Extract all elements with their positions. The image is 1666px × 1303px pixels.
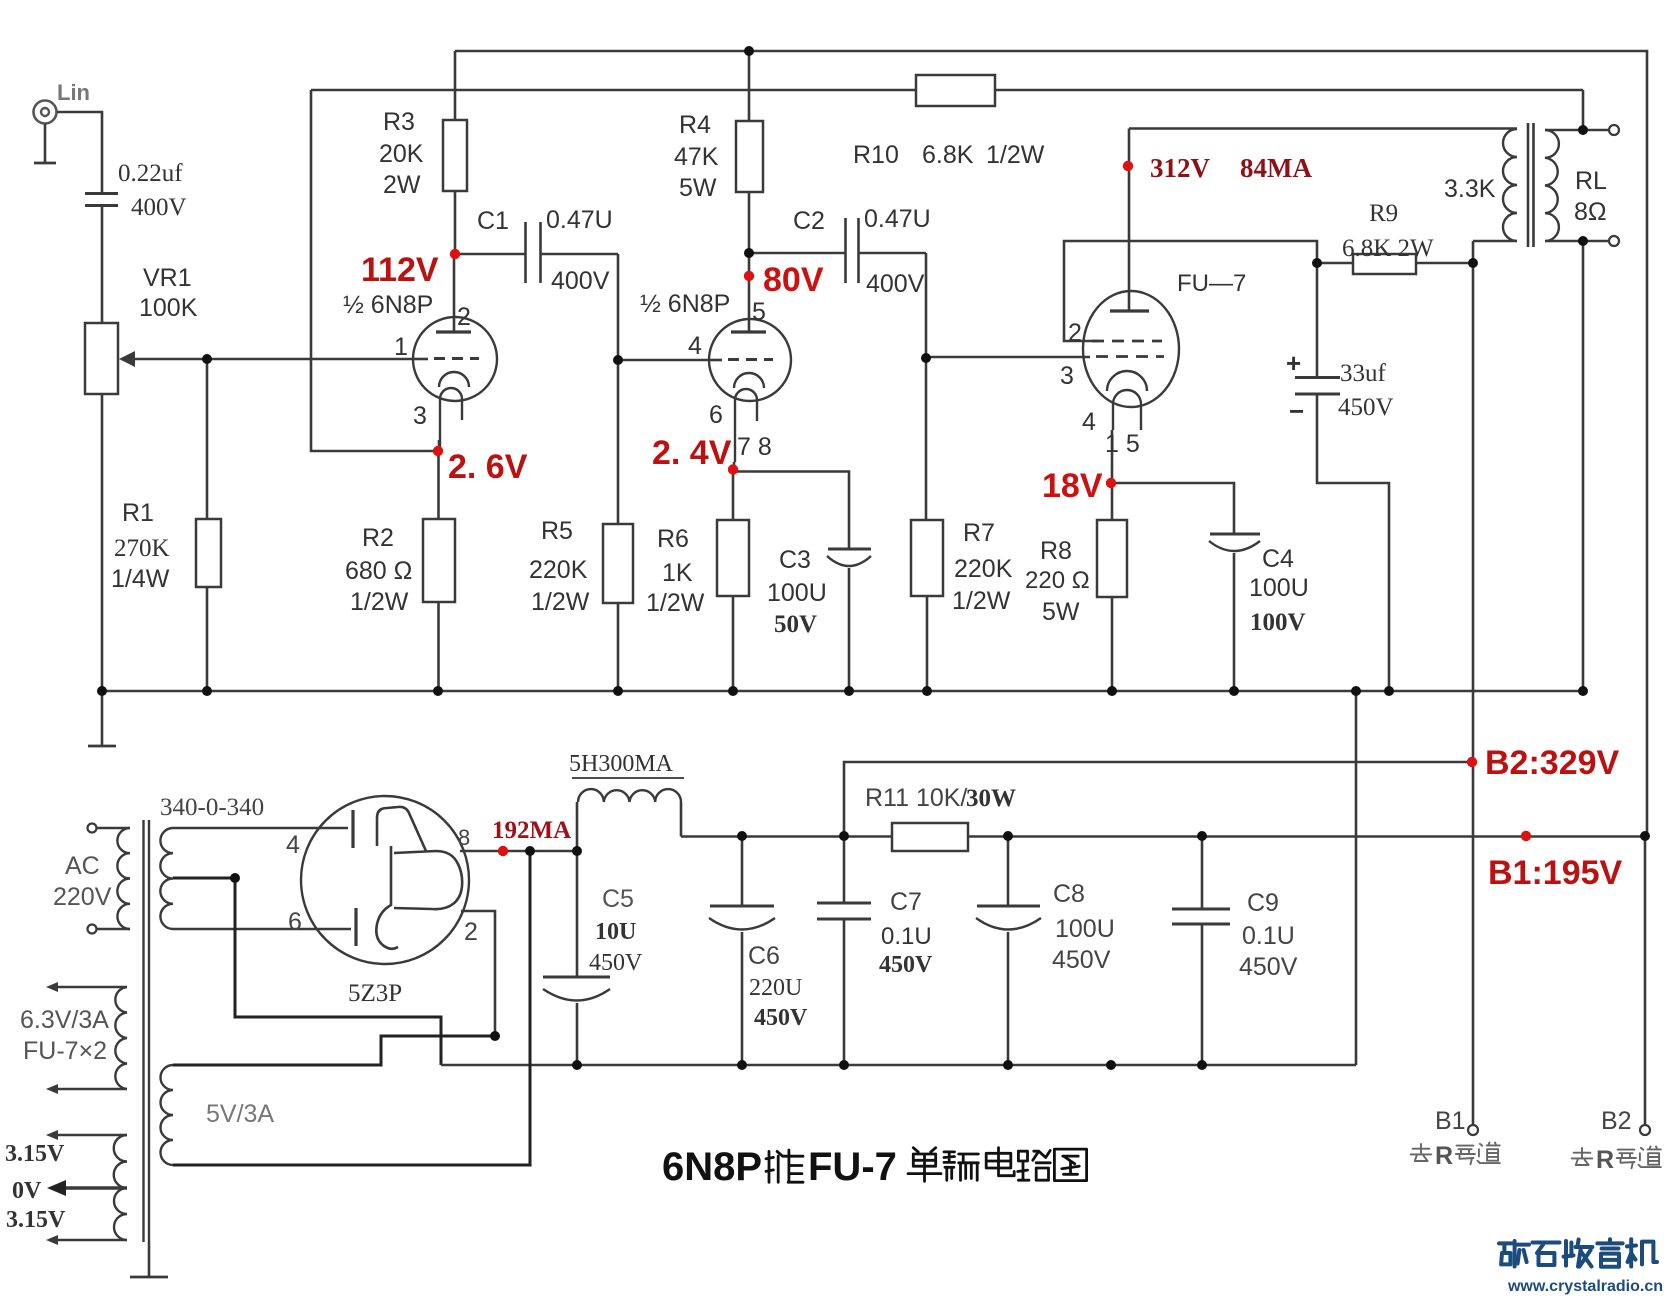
svg-text:5V/3A: 5V/3A xyxy=(206,1100,274,1128)
svg-text:6: 6 xyxy=(709,401,723,429)
wire HV top to 5Z3P pin4 xyxy=(173,827,348,830)
svg-text:R9: R9 xyxy=(1369,200,1398,227)
wire secondary ground drop xyxy=(1582,241,1585,691)
VR1 wiper arrow xyxy=(122,358,207,361)
wire cathode2 to C3 xyxy=(733,472,849,550)
svg-text:450V: 450V xyxy=(1338,394,1394,421)
resistor R11 xyxy=(892,823,968,851)
svg-text:30W: 30W xyxy=(966,785,1016,812)
svg-text:VR1: VR1 xyxy=(143,264,192,292)
svg-text:B1:195V: B1:195V xyxy=(1488,854,1623,892)
terminal B2 out xyxy=(1640,1125,1650,1135)
svg-text:3.15V: 3.15V xyxy=(5,1141,65,1167)
svg-text:220V: 220V xyxy=(53,883,112,911)
svg-text:100K: 100K xyxy=(139,294,198,322)
AC input terminals xyxy=(88,824,97,833)
svg-text:7 8: 7 8 xyxy=(737,433,772,461)
output transformer secondary RL xyxy=(1545,130,1559,241)
svg-text:R: R xyxy=(1435,1142,1453,1170)
ground rail lower xyxy=(441,1064,1356,1067)
arrow 3.15V top xyxy=(52,1134,127,1137)
svg-text:400V: 400V xyxy=(866,270,925,298)
svg-text:450V: 450V xyxy=(589,950,643,976)
svg-text:C4: C4 xyxy=(1262,545,1294,573)
ground at Lin xyxy=(44,124,47,162)
resistor R6 xyxy=(717,520,749,596)
svg-text:33uf: 33uf xyxy=(1340,360,1387,387)
svg-text:680 Ω: 680 Ω xyxy=(345,557,412,585)
capacitor C1 xyxy=(455,253,525,256)
svg-text:4: 4 xyxy=(1082,408,1096,436)
title glyph tui xyxy=(766,1150,803,1182)
svg-text:1/2W: 1/2W xyxy=(531,588,590,616)
svg-text:1/2W: 1/2W xyxy=(952,587,1011,615)
ground rail upper xyxy=(100,690,1583,693)
resistor R8 xyxy=(1111,483,1114,520)
svg-text:100V: 100V xyxy=(1250,609,1306,636)
triode U1 half 6N8P xyxy=(413,254,497,448)
svg-text:C6: C6 xyxy=(748,942,780,970)
label to R channel right xyxy=(1572,1148,1593,1165)
svg-text:RL: RL xyxy=(1575,167,1607,195)
svg-text:5Z3P: 5Z3P xyxy=(348,980,402,1007)
svg-text:R10: R10 xyxy=(853,141,899,169)
wire VR1 bottom xyxy=(101,394,104,691)
svg-text:B1: B1 xyxy=(1435,1107,1466,1135)
ground below rail left xyxy=(101,691,104,745)
wire top B1 rail xyxy=(455,51,1647,836)
terminal B1 out xyxy=(1468,1125,1478,1135)
resistor R3 xyxy=(454,51,457,120)
svg-text:½ 6N8P: ½ 6N8P xyxy=(640,290,730,318)
resistor R1 xyxy=(206,359,209,519)
svg-text:50V: 50V xyxy=(774,611,817,638)
wire secondary top to terminal xyxy=(1545,129,1609,132)
svg-text:5W: 5W xyxy=(1042,598,1080,626)
svg-text:6N8P: 6N8P xyxy=(662,1145,762,1189)
svg-text:R5: R5 xyxy=(541,517,573,545)
title glyph lu xyxy=(1018,1151,1050,1181)
wire cathode2 node xyxy=(733,462,736,469)
svg-text:450V: 450V xyxy=(754,1005,808,1031)
svg-text:450V: 450V xyxy=(879,952,933,978)
capacitor 33uf xyxy=(1316,263,1319,377)
wire Lin to C in xyxy=(57,112,102,193)
capacitor C5 xyxy=(576,851,579,977)
svg-text:18V: 18V xyxy=(1042,467,1103,505)
svg-text:C8: C8 xyxy=(1053,880,1085,908)
resistor R9 xyxy=(1317,262,1353,265)
rectifier winding 5V xyxy=(161,1065,174,1165)
svg-text:100U: 100U xyxy=(1055,915,1115,943)
heater winding 3.15V lower xyxy=(114,1188,127,1240)
svg-text:½ 6N8P: ½ 6N8P xyxy=(343,291,433,319)
wire HV bottom to 5Z3P pin6 xyxy=(173,928,351,931)
svg-text:3: 3 xyxy=(413,402,427,430)
svg-text:270K: 270K xyxy=(114,535,170,562)
pentode FU-7 xyxy=(1083,129,1179,431)
core ground lead xyxy=(148,1242,151,1276)
wire grid tube2 xyxy=(618,359,710,362)
potentiometer VR1 xyxy=(85,323,118,394)
svg-text:R4: R4 xyxy=(679,111,711,139)
svg-text:1/2W: 1/2W xyxy=(350,588,409,616)
svg-text:www.crystalradio.cn: www.crystalradio.cn xyxy=(1507,1278,1663,1295)
wire 5V bottom to B+ node xyxy=(173,851,530,1165)
terminal RL bottom xyxy=(1609,236,1619,246)
input connector Lin xyxy=(34,101,57,124)
wire B2 drop from R9 right xyxy=(1472,263,1475,1130)
rectifier tube 5Z3P xyxy=(301,796,469,964)
title glyph dian xyxy=(986,1148,1014,1176)
wire B1 output drop xyxy=(1644,836,1647,1130)
svg-text:R11 10K/: R11 10K/ xyxy=(865,784,967,812)
svg-text:1 5: 1 5 xyxy=(1105,430,1140,458)
svg-text:6.8K 2W: 6.8K 2W xyxy=(1342,235,1434,262)
svg-text:2: 2 xyxy=(457,303,471,331)
svg-text:R2: R2 xyxy=(362,524,394,552)
arrow 6.3V top xyxy=(52,986,127,989)
svg-text:2: 2 xyxy=(1068,319,1082,347)
svg-text:C5: C5 xyxy=(602,885,634,913)
svg-text:10U: 10U xyxy=(595,919,636,945)
svg-text:5H300MA: 5H300MA xyxy=(569,751,674,777)
transformer core xyxy=(1527,123,1530,247)
svg-text:5W: 5W xyxy=(679,174,717,202)
resistor R10 xyxy=(916,75,995,106)
wire HV center tap to ground rail xyxy=(173,878,441,1065)
svg-text:3: 3 xyxy=(1060,362,1074,390)
capacitor C6 xyxy=(741,836,744,906)
capacitor C3 xyxy=(828,548,871,551)
svg-text:B2:329V: B2:329V xyxy=(1485,744,1620,782)
svg-text:4: 4 xyxy=(286,831,300,859)
svg-text:1/2W: 1/2W xyxy=(646,589,705,617)
svg-text:6.3V/3A: 6.3V/3A xyxy=(20,1006,109,1034)
svg-text:400V: 400V xyxy=(551,267,610,295)
wire secondary bottom to terminal xyxy=(1545,240,1609,243)
resistor R4 xyxy=(748,51,751,121)
arrow 6.3V bottom xyxy=(52,1088,127,1091)
svg-text:80V: 80V xyxy=(763,261,824,299)
wire grid FU-7 xyxy=(926,356,1090,359)
svg-text:0V: 0V xyxy=(12,1178,42,1204)
resistor R5 xyxy=(603,524,633,603)
wire B2 branch xyxy=(844,762,1472,836)
svg-text:R: R xyxy=(1596,1146,1614,1174)
svg-text:0.22uf: 0.22uf xyxy=(118,160,183,187)
svg-text:8Ω: 8Ω xyxy=(1574,198,1607,226)
svg-text:4: 4 xyxy=(688,332,702,360)
svg-text:2: 2 xyxy=(464,918,478,946)
svg-text:220 Ω: 220 Ω xyxy=(1025,567,1090,594)
triode U2 half 6N8P xyxy=(709,253,791,462)
svg-text:R1: R1 xyxy=(122,499,154,527)
label to R channel left xyxy=(1411,1144,1432,1161)
svg-text:C7: C7 xyxy=(890,888,922,916)
svg-text:FU-7×2: FU-7×2 xyxy=(23,1037,107,1065)
wire C2 to R7/grid3 xyxy=(925,253,928,520)
svg-text:2. 6V: 2. 6V xyxy=(448,448,528,486)
heater winding 6.3V xyxy=(115,987,127,1089)
svg-text:−: − xyxy=(1289,396,1304,426)
resistor R2 xyxy=(423,519,455,602)
svg-text:340-0-340: 340-0-340 xyxy=(160,794,264,821)
svg-text:1: 1 xyxy=(394,333,408,361)
HV winding 340-0-340 xyxy=(160,828,173,929)
svg-text:+: + xyxy=(1286,348,1301,378)
svg-text:220K: 220K xyxy=(954,555,1013,583)
capacitor C8 xyxy=(1007,836,1010,906)
arrow 0V center xyxy=(56,1186,127,1189)
svg-text:R6: R6 xyxy=(657,525,689,553)
svg-text:R7: R7 xyxy=(963,519,995,547)
svg-text:0.1U: 0.1U xyxy=(1242,922,1295,950)
svg-text:6: 6 xyxy=(288,908,302,936)
svg-text:1K: 1K xyxy=(662,559,693,587)
svg-text:100U: 100U xyxy=(1249,574,1309,602)
svg-text:C3: C3 xyxy=(779,546,811,574)
capacitor 0.22uf xyxy=(85,192,118,195)
wire 5Z3P pin2 filament xyxy=(461,911,495,1036)
wire choke output / B1 line xyxy=(681,835,892,838)
power transformer core xyxy=(142,820,144,1242)
wire grid tube1 xyxy=(207,358,413,361)
terminal RL top xyxy=(1609,125,1619,135)
svg-text:47K: 47K xyxy=(674,143,719,171)
svg-text:220U: 220U xyxy=(749,975,802,1001)
junction dots xyxy=(744,46,754,56)
svg-text:3.3K: 3.3K xyxy=(1444,175,1496,203)
watermark logo xyxy=(1499,1241,1529,1267)
resistor R7 xyxy=(911,520,943,596)
svg-text:450V: 450V xyxy=(1052,946,1111,974)
svg-text:1/2W: 1/2W xyxy=(986,141,1045,169)
output transformer primary 3.3K xyxy=(1473,240,1517,243)
wire ground link between rails xyxy=(1355,691,1358,1065)
svg-text:192MA: 192MA xyxy=(492,817,571,844)
svg-text:0.47U: 0.47U xyxy=(546,206,613,234)
red voltage nodes xyxy=(450,249,460,259)
svg-text:5: 5 xyxy=(752,298,766,326)
wire feedback rail xyxy=(311,89,916,92)
wire 18V to C4 xyxy=(1112,483,1234,534)
title glyph duan xyxy=(944,1152,978,1180)
svg-text:84MA: 84MA xyxy=(1240,153,1312,183)
svg-text:R3: R3 xyxy=(383,108,415,136)
wire feedback drop to cathode xyxy=(311,90,438,451)
arrow 3.15V bottom xyxy=(52,1239,127,1242)
svg-text:R8: R8 xyxy=(1040,537,1072,565)
svg-text:8: 8 xyxy=(458,825,470,850)
svg-text:20K: 20K xyxy=(379,140,424,168)
svg-text:100U: 100U xyxy=(767,579,827,607)
capacitor C2 xyxy=(749,252,845,255)
svg-text:400V: 400V xyxy=(131,194,187,221)
wire FU-7 plate feed xyxy=(1129,127,1517,130)
heater winding 3.15V upper xyxy=(114,1135,127,1188)
svg-text:C2: C2 xyxy=(793,207,825,235)
svg-text:AC: AC xyxy=(65,852,100,880)
svg-text:312V: 312V xyxy=(1150,153,1211,183)
svg-text:6.8K: 6.8K xyxy=(922,141,974,169)
svg-text:3.15V: 3.15V xyxy=(6,1207,66,1233)
wire 33uf negative to ground rail xyxy=(1317,394,1389,691)
wire cathode FU-7 to 18V node xyxy=(1111,430,1114,483)
wire C1 to R5/grid2 xyxy=(617,254,620,524)
wire 5V top to 5Z3P pin2 xyxy=(173,1036,495,1065)
svg-text:Lin: Lin xyxy=(57,80,90,105)
wire cathode1 to R2 xyxy=(438,440,441,451)
wire screen grid bracket xyxy=(1064,241,1317,341)
svg-text:2. 4V: 2. 4V xyxy=(652,434,732,472)
title glyph dan xyxy=(908,1148,941,1182)
svg-text:C1: C1 xyxy=(477,207,509,235)
capacitor C4 xyxy=(1210,533,1260,536)
svg-text:220K: 220K xyxy=(529,556,588,584)
svg-text:FU-7: FU-7 xyxy=(808,1145,897,1189)
svg-text:C9: C9 xyxy=(1247,889,1279,917)
svg-text:112V: 112V xyxy=(361,251,439,289)
wire 5Z3P pin8 output xyxy=(460,850,577,853)
svg-text:0.1U: 0.1U xyxy=(881,923,932,950)
mains primary winding xyxy=(117,828,130,929)
choke 5H300MA xyxy=(576,802,579,851)
svg-text:FU—7: FU—7 xyxy=(1177,270,1246,297)
svg-text:450V: 450V xyxy=(1239,953,1298,981)
capacitor C9 xyxy=(1201,836,1204,909)
svg-text:B2: B2 xyxy=(1601,1107,1632,1135)
svg-text:2W: 2W xyxy=(383,171,421,199)
capacitor C7 xyxy=(843,836,846,903)
title glyph tu xyxy=(1054,1149,1086,1181)
svg-text:1/4W: 1/4W xyxy=(111,565,170,593)
svg-text:0.47U: 0.47U xyxy=(864,205,931,233)
